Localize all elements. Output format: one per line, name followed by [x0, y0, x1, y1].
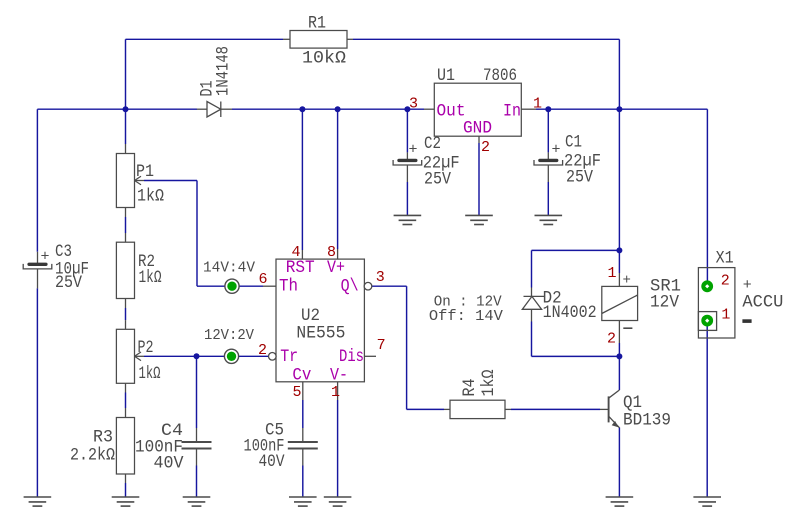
svg-text:R3: R3 [93, 428, 113, 448]
timer U2 NE555 [276, 259, 364, 382]
junction at (619.4,250.4) [616, 247, 622, 253]
wire P1 wiper run [144, 180, 197, 182]
connector X1 [698, 268, 735, 338]
svg-text:+: + [409, 142, 418, 159]
resistor R2 [116, 242, 134, 298]
junction at (619.4,109.2) [616, 106, 622, 112]
wire R1 left riser [125, 39, 127, 109]
svg-text:P1: P1 [136, 162, 154, 182]
diode D2 1N4002 [531, 288, 533, 297]
wire left rail x=37 [36, 109, 38, 252]
svg-text:BD139: BD139 [623, 411, 671, 431]
resistor R3 [116, 418, 134, 475]
svg-text:12V: 12V [650, 293, 679, 313]
wire 555 V- drop [337, 400, 339, 497]
ground for C2 [394, 214, 422, 216]
svg-text:25V: 25V [566, 168, 593, 188]
wire 555 pin4 riser [301, 109, 303, 250]
resistor R4 [450, 400, 505, 418]
wire Q output net [372, 285, 407, 287]
svg-text:V+: V+ [327, 258, 345, 278]
junction at (125.5,109.2) [123, 106, 129, 112]
potentiometer P1 [116, 154, 134, 208]
svg-text:2: 2 [721, 272, 730, 289]
capacitor C1 22uF [547, 152, 549, 160]
svg-text:P2: P2 [138, 338, 154, 358]
svg-text:5: 5 [293, 384, 302, 401]
svg-text:NE555: NE555 [296, 324, 345, 344]
wire Q1 emitter to ground [618, 428, 620, 498]
testpoint 14V:4V [225, 279, 239, 293]
svg-text:6: 6 [259, 271, 268, 288]
svg-text:+: + [552, 142, 561, 159]
wire relay to Q1 collector [618, 356, 620, 390]
diode D1 1N4148 [197, 108, 207, 110]
svg-text:+: + [743, 277, 752, 294]
svg-text:4: 4 [292, 244, 301, 261]
ground for 555 V- [324, 496, 352, 498]
junction at (302.4,109.2) [299, 106, 305, 112]
svg-text:Cv: Cv [292, 366, 311, 386]
relay SR1 coil [602, 286, 638, 320]
svg-text:Tr: Tr [280, 347, 298, 367]
svg-text:1N4002: 1N4002 [543, 303, 597, 323]
svg-text:40V: 40V [259, 452, 285, 472]
wire relay feed [618, 109, 620, 273]
ground for C4 [183, 496, 211, 498]
svg-text:R1: R1 [308, 14, 326, 34]
junction at (619.4,356.4) [616, 353, 622, 359]
svg-text:40V: 40V [154, 454, 184, 474]
pad X1-2 [701, 280, 713, 292]
svg-text:U1: U1 [437, 66, 455, 86]
wire C5 drop [302, 400, 304, 428]
svg-text:In: In [503, 102, 521, 122]
ground for U1 GND [465, 214, 493, 216]
wire top rail [37, 108, 197, 110]
wire right rail to X1 [706, 109, 708, 286]
wire P1 chain [125, 109, 127, 144]
wire C1 drop [547, 109, 549, 152]
svg-text:C1: C1 [565, 133, 582, 153]
wire 555 pin8 riser [337, 109, 339, 249]
wire C2 drop [406, 109, 408, 152]
potentiometer P2 [116, 329, 134, 383]
junction at (407.4,109.2) [404, 106, 410, 112]
ground for left rail [24, 496, 52, 498]
svg-text:1kΩ: 1kΩ [139, 268, 162, 288]
svg-text:1kΩ: 1kΩ [479, 370, 499, 397]
svg-text:ACCU: ACCU [742, 293, 783, 313]
capacitor C2 22uF [406, 152, 408, 160]
junction at (337.6,109.2) [335, 106, 341, 112]
ground for R3 [112, 496, 140, 498]
svg-text:14V:4V: 14V:4V [203, 260, 255, 277]
svg-text:2: 2 [481, 139, 490, 156]
svg-text:X1: X1 [716, 249, 734, 269]
svg-text:1kΩ: 1kΩ [137, 187, 164, 207]
wire D2 bottom [531, 322, 533, 357]
capacitor C5 100nF [288, 441, 318, 443]
svg-text:V-: V- [330, 366, 348, 386]
svg-text:1N4148: 1N4148 [214, 46, 234, 96]
wire relay bottom [618, 343, 620, 356]
svg-text:10kΩ: 10kΩ [302, 49, 346, 69]
regulator U1 7806 [434, 83, 521, 136]
capacitor C3 10uF [37, 252, 39, 264]
wire X1 pin1 to ground [706, 321, 708, 497]
wire D2 top [532, 249, 620, 251]
capacitor C4 100nF [182, 441, 212, 443]
ground for C1 [535, 214, 563, 216]
svg-text:Q\: Q\ [341, 276, 359, 296]
svg-text:Th: Th [279, 276, 298, 296]
svg-text:1: 1 [533, 95, 542, 112]
wire R1 top right [353, 38, 619, 40]
wire P2 wiper run [144, 355, 268, 357]
svg-text:1: 1 [721, 307, 730, 324]
ground for X1 [693, 496, 721, 498]
transistor Q1 BD139 [608, 396, 610, 422]
svg-text:RST: RST [286, 258, 315, 278]
wire U1 gnd drop [478, 143, 480, 215]
junction at (548.3,109.2) [545, 106, 551, 112]
ground for Q1 emitter [606, 496, 634, 498]
svg-text:R4: R4 [460, 379, 480, 397]
testpoint 12V:2V [224, 349, 238, 363]
svg-text:7: 7 [377, 337, 386, 354]
ground for C5 [289, 496, 317, 498]
svg-text:3: 3 [376, 269, 385, 286]
svg-text:2.2kΩ: 2.2kΩ [70, 446, 115, 466]
svg-text:12V:2V: 12V:2V [204, 327, 254, 344]
svg-text:25V: 25V [55, 273, 82, 293]
svg-text:2: 2 [258, 342, 267, 359]
svg-text:C2: C2 [424, 134, 441, 154]
svg-text:GND: GND [463, 119, 492, 139]
resistor R1 [290, 31, 347, 49]
svg-text:1: 1 [608, 265, 617, 282]
pad X1-1 [701, 315, 713, 327]
svg-text:8: 8 [327, 244, 336, 261]
wire C4 drop [196, 356, 198, 428]
svg-text:3: 3 [409, 95, 418, 112]
svg-text:+: + [41, 249, 50, 266]
svg-text:Dis: Dis [339, 347, 364, 367]
svg-text:Out: Out [437, 102, 466, 122]
wire R1 right riser [618, 39, 620, 109]
svg-text:25V: 25V [424, 170, 451, 190]
svg-text:2: 2 [607, 331, 616, 348]
svg-text:+: + [623, 273, 631, 289]
svg-text:1: 1 [331, 384, 340, 401]
junction at (196.5,356.3) [194, 353, 200, 359]
svg-text:1kΩ: 1kΩ [139, 364, 161, 384]
wire R4 to Q1 base [511, 408, 600, 410]
wire R1 top left [126, 38, 284, 40]
svg-text:Off: 14V: Off: 14V [429, 308, 503, 325]
svg-text:7806: 7806 [483, 66, 517, 86]
